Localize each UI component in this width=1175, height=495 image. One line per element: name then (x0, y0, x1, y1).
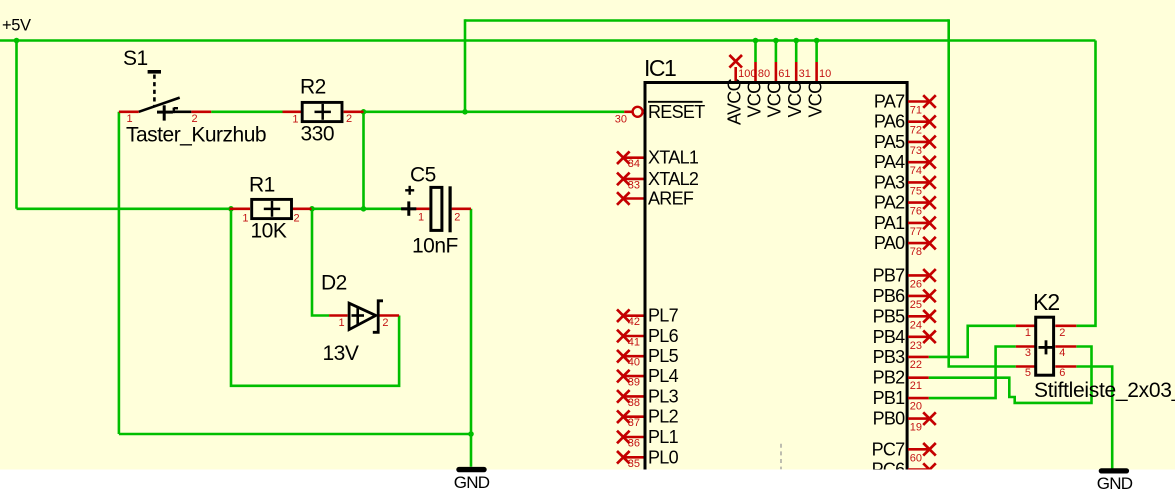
svg-text:PL2: PL2 (648, 407, 679, 427)
capacitor C5 (polarized) (401, 186, 471, 233)
wire VCC riser pin31 (795, 41, 798, 63)
wire S1 pin1 riser down (118, 112, 121, 434)
wire VCC riser pin10 (815, 41, 818, 63)
S1 value label Taster_Kurzhub (126, 124, 266, 147)
R1 name label (249, 173, 275, 196)
svg-text:19: 19 (910, 422, 922, 434)
switch S1 Taster_Kurzhub (119, 72, 211, 121)
resistor R1 (230, 199, 312, 218)
svg-text:2: 2 (1059, 327, 1065, 339)
svg-text:PB7: PB7 (873, 265, 906, 285)
R1 value label 10K (251, 219, 287, 242)
C5 value label 10nF (412, 234, 458, 257)
IC1 pin RESET (30) (615, 102, 705, 126)
wire S1 pin2 to R2 pin1 (211, 111, 282, 114)
IC1 pin PB5 (24) n.c. (873, 306, 936, 331)
svg-text:PL3: PL3 (648, 386, 679, 406)
white area below sheet (0, 470, 1175, 495)
IC1 pin PB1 (20) connected (873, 388, 929, 412)
IC1 pin PA5 (73) n.c. (874, 132, 936, 157)
junction VCC pin10 (814, 38, 820, 44)
IC1 pin PA3 (75) n.c. (874, 172, 936, 197)
svg-text:26: 26 (910, 278, 922, 290)
svg-text:31: 31 (799, 68, 811, 80)
svg-text:6: 6 (1059, 367, 1065, 379)
svg-text:61: 61 (778, 68, 790, 80)
wire bottom GND rail (119, 433, 471, 436)
K2 name label (1033, 289, 1059, 315)
wire VCC riser pin61 (775, 41, 778, 63)
svg-text:33: 33 (628, 179, 640, 191)
IC1 pin PA4 (74) n.c. (874, 152, 936, 177)
svg-text:PC7: PC7 (872, 439, 906, 459)
svg-text:PL5: PL5 (648, 346, 679, 366)
junction R1 pin1 / D2 loop (228, 206, 234, 212)
svg-text:R2: R2 (300, 76, 326, 99)
svg-text:VCC: VCC (785, 81, 805, 118)
svg-text:VCC: VCC (805, 81, 825, 118)
D2 value label 13V (323, 342, 359, 365)
svg-text:PA2: PA2 (874, 193, 905, 213)
svg-text:25: 25 (910, 299, 922, 311)
svg-text:74: 74 (910, 165, 922, 177)
wire K2 pin6 to GND (1076, 367, 1112, 469)
svg-text:42: 42 (628, 316, 640, 328)
svg-text:PB2: PB2 (873, 368, 906, 388)
svg-text:VCC: VCC (765, 81, 785, 118)
wire left +5V riser (15, 41, 18, 209)
svg-text:2: 2 (382, 317, 388, 329)
IC1 pin PB4 (23) n.c. (873, 327, 936, 352)
svg-text:+5V: +5V (2, 16, 31, 34)
wire top rail (RESET net to K2 pin5) (465, 19, 949, 22)
zener diode D2 (329, 301, 399, 333)
IC1 pin PL5 (40) n.c. (617, 346, 679, 369)
svg-text:R1: R1 (249, 173, 275, 196)
C5 name label (410, 163, 436, 186)
IC1 pin PL0 (35) n.c. (617, 447, 679, 470)
svg-text:PL0: PL0 (648, 447, 679, 467)
R1 pin number 2 (294, 213, 300, 225)
IC1 pin VCC (61) top (765, 62, 791, 118)
D2 pin number 1 (339, 317, 345, 329)
svg-text:PL6: PL6 (648, 326, 679, 346)
wire riser from top rail to RESET wire (464, 19, 467, 112)
S1 pin number 2 (192, 113, 198, 125)
IC1 pin PL6 (41) n.c. (617, 326, 679, 349)
junction VCC pin80 (753, 38, 759, 44)
svg-text:Taster_Kurzhub: Taster_Kurzhub (126, 124, 266, 147)
junction R2 riser on R1-C5 wire (361, 206, 367, 212)
svg-text:13V: 13V (323, 342, 359, 365)
junction VCC pin31 (793, 38, 799, 44)
svg-text:1: 1 (339, 317, 345, 329)
svg-text:RESET: RESET (648, 102, 705, 122)
svg-text:AVCC: AVCC (725, 78, 745, 125)
svg-text:330: 330 (301, 122, 335, 145)
junction VCC pin61 (773, 38, 779, 44)
svg-text:PB6: PB6 (873, 286, 906, 306)
svg-text:2: 2 (346, 113, 352, 125)
S1 pin number 1 (127, 113, 133, 125)
IC1 pin PL3 (38) n.c. (617, 386, 679, 409)
svg-text:36: 36 (628, 438, 640, 450)
wire PB2 staircase to K2 pin4 (929, 347, 1092, 403)
ground symbol GND (right) (1097, 468, 1133, 493)
svg-text:PA7: PA7 (874, 92, 905, 112)
R2 pin number 2 (346, 113, 352, 125)
svg-text:75: 75 (910, 185, 922, 197)
svg-text:4: 4 (1059, 347, 1065, 359)
svg-text:IC1: IC1 (644, 55, 676, 81)
svg-text:D2: D2 (321, 272, 347, 295)
svg-text:5: 5 (1025, 367, 1031, 379)
IC1 pin PC6 n.c. (cut off at sheet edge) (872, 460, 936, 480)
svg-text:PL4: PL4 (648, 366, 679, 386)
IC1 pin PA0 (78) n.c. (874, 233, 936, 258)
wire D2 cathode loop to +5V feed (231, 209, 399, 386)
svg-text:PA1: PA1 (874, 213, 905, 233)
IC1 pin PB2 (21) connected (873, 368, 929, 392)
svg-text:76: 76 (910, 206, 922, 218)
svg-text:PB3: PB3 (873, 347, 906, 367)
svg-text:PA5: PA5 (874, 132, 905, 152)
IC1 pin PB3 (22) connected (873, 347, 929, 371)
K2 value label Stiftleiste_2x03 (1034, 379, 1175, 402)
svg-text:XTAL1: XTAL1 (648, 148, 699, 168)
svg-text:40: 40 (628, 357, 640, 369)
svg-text:AREF: AREF (648, 189, 694, 209)
wire PB1 to K2 pin3 (929, 347, 1016, 399)
K2 pin number 6 (1059, 367, 1065, 379)
svg-text:10K: 10K (251, 219, 287, 242)
svg-text:73: 73 (910, 145, 922, 157)
IC1 pin PA6 (72) n.c. (874, 112, 936, 137)
svg-text:10nF: 10nF (412, 234, 458, 257)
junction on +5V rail at left riser (14, 38, 20, 44)
IC1 name label (644, 55, 676, 81)
S1 name label (123, 47, 148, 70)
svg-text:34: 34 (628, 158, 640, 170)
wire R1 pin2 to C5 pin1 (312, 208, 410, 211)
K2 pin number 5 (1025, 367, 1031, 379)
svg-text:77: 77 (910, 226, 922, 238)
svg-text:PL1: PL1 (648, 427, 679, 447)
svg-text:35: 35 (628, 458, 640, 470)
connector K2 Stiftleiste_2x03 (1016, 317, 1077, 375)
wire +5V rail (0, 39, 1096, 42)
IC1 pin PL1 (36) n.c. (617, 427, 679, 450)
svg-text:1: 1 (127, 113, 133, 125)
svg-text:22: 22 (910, 359, 922, 371)
wire R2 output riser down (362, 112, 365, 209)
IC1 pin XTAL1 (34) n.c. (617, 148, 699, 171)
junction R2 pin2 node (361, 109, 367, 115)
R2 pin number 1 (292, 114, 298, 126)
svg-text:78: 78 (910, 246, 922, 258)
svg-text:23: 23 (910, 340, 922, 352)
K2 pin number 2 (1059, 327, 1065, 339)
ground symbol GND (left) (454, 467, 490, 492)
C5 pin number 1 (418, 212, 424, 224)
svg-text:XTAL2: XTAL2 (648, 169, 699, 189)
node +5V label (2, 16, 31, 34)
svg-text:PA3: PA3 (874, 172, 905, 192)
R1 pin number 1 (242, 213, 248, 225)
svg-text:2: 2 (294, 213, 300, 225)
D2 name label (321, 272, 347, 295)
wire C5 pin2 riser down to GND (470, 209, 473, 467)
wire +5V riser to K2 pin2 (1076, 41, 1095, 326)
D2 pin number 2 (382, 317, 388, 329)
IC1 pin VCC (10) top (805, 62, 831, 118)
svg-text:72: 72 (910, 125, 922, 137)
svg-text:PA4: PA4 (874, 152, 905, 172)
R2 name label (300, 76, 326, 99)
svg-text:1: 1 (1025, 327, 1031, 339)
svg-text:1: 1 (242, 213, 248, 225)
svg-text:60: 60 (910, 452, 922, 464)
IC1 pin PL2 (37) n.c. (617, 407, 679, 430)
svg-text:39: 39 (628, 377, 640, 389)
junction bottom rail / GND riser (468, 431, 474, 437)
resistor R2 (283, 102, 364, 121)
svg-text:Stiftleiste_2x03_1: Stiftleiste_2x03_1 (1034, 379, 1175, 402)
IC1 pin PA2 (76) n.c. (874, 193, 936, 218)
svg-text:71: 71 (910, 105, 922, 117)
R2 value label 330 (301, 122, 335, 145)
IC1 pin PC7 (60) n.c. (872, 439, 936, 464)
wire PB3 to K2 pin1 (929, 326, 1016, 357)
IC1 pin PB6 (25) n.c. (873, 286, 936, 311)
IC1 pin VCC (31) top (785, 62, 811, 118)
svg-text:PB4: PB4 (873, 327, 906, 347)
svg-text:21: 21 (910, 380, 922, 392)
IC1 pin PL4 (39) n.c. (617, 366, 679, 389)
IC1 pin PB7 (26) n.c. (873, 265, 936, 290)
svg-text:10: 10 (819, 68, 831, 80)
svg-text:S1: S1 (123, 47, 148, 70)
IC1 pin PA7 (71) n.c. (874, 92, 936, 117)
svg-text:K2: K2 (1033, 289, 1059, 315)
IC1 pin XTAL2 (33) n.c. (617, 169, 699, 192)
svg-text:3: 3 (1025, 347, 1031, 359)
wire VCC riser pin80 (754, 41, 757, 63)
svg-text:38: 38 (628, 397, 640, 409)
svg-text:GND: GND (454, 473, 490, 492)
svg-text:1: 1 (292, 114, 298, 126)
svg-text:30: 30 (615, 114, 627, 126)
IC1 pin VCC (80) top (744, 62, 770, 118)
svg-text:100: 100 (738, 68, 756, 80)
svg-text:VCC: VCC (744, 81, 764, 118)
junction R1 pin2 / D2 anode (309, 206, 315, 212)
svg-text:1: 1 (418, 212, 424, 224)
K2 pin number 3 (1025, 347, 1031, 359)
svg-text:24: 24 (910, 319, 922, 331)
sheet frame dashed divider mark (780, 444, 782, 469)
svg-text:GND: GND (1097, 474, 1133, 493)
svg-text:PL7: PL7 (648, 306, 679, 326)
IC1 pin PL7 (42) n.c. (617, 306, 679, 329)
wire D2 anode riser (312, 209, 329, 316)
junction RESET riser node (462, 109, 468, 115)
K2 pin number 4 (1059, 347, 1065, 359)
svg-text:PB0: PB0 (873, 409, 906, 429)
C5 pin number 2 (454, 212, 460, 224)
svg-text:PA6: PA6 (874, 112, 905, 132)
svg-text:2: 2 (192, 113, 198, 125)
svg-text:2: 2 (454, 212, 460, 224)
svg-text:PA0: PA0 (874, 233, 905, 253)
svg-text:20: 20 (910, 400, 922, 412)
IC1 box outline (645, 83, 907, 472)
svg-text:PB5: PB5 (873, 306, 906, 326)
K2 pin number 1 (1025, 327, 1031, 339)
svg-text:41: 41 (628, 337, 640, 349)
IC1 pin PB0 (19) n.c. (873, 409, 936, 434)
svg-text:80: 80 (758, 68, 770, 80)
svg-text:C5: C5 (410, 163, 436, 186)
svg-text:37: 37 (628, 417, 640, 429)
IC1 pin AVCC (100) n.c. on top (725, 55, 757, 125)
svg-text:PB1: PB1 (873, 388, 906, 408)
wire top rail riser to K2 pin5 (949, 19, 1016, 366)
wire +5V feed to R1 (17, 208, 232, 211)
IC1 pin AREF n.c. (617, 189, 694, 209)
IC1 pin PA1 (77) n.c. (874, 213, 936, 238)
wire R2 pin2 to RESET pin (364, 111, 625, 114)
